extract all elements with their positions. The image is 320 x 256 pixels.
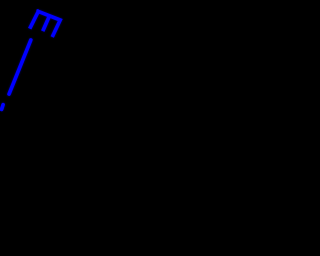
shaft main segment	[9, 40, 31, 94]
E head outline: bottom arm, spine, top arm	[30, 11, 61, 37]
soft glow underlay	[2, 11, 61, 109]
E middle arm	[43, 16, 50, 31]
corner A apex patch	[36, 9, 39, 11]
shaft dash	[2, 105, 3, 110]
crisp core strokes	[2, 9, 61, 109]
blue rotated-E fork icon with dashed shaft	[0, 0, 256, 256]
